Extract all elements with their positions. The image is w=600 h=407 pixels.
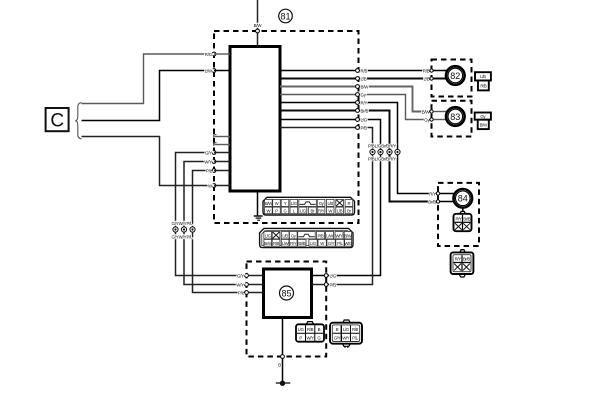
svg-text:P/B L/G Br/B R/Y: P/B L/G Br/B R/Y — [368, 156, 396, 161]
unit 85 dashed enclosure — [247, 262, 327, 357]
wire R/G pin to block — [214, 53, 230, 55]
J1 blocked pin — [336, 199, 344, 206]
svg-text:Br/B: Br/B — [463, 216, 470, 221]
svg-text:R/Y: R/Y — [318, 209, 325, 214]
J2 pin W/G row2 — [344, 239, 353, 246]
svg-text:L/G: L/G — [291, 201, 298, 206]
bullet connector R/Y — [395, 149, 400, 154]
svg-text:G/Y W/Y P/L: G/Y W/Y P/L — [172, 235, 194, 240]
J2 pin L/W — [326, 232, 335, 239]
svg-text:B/W: B/W — [422, 109, 431, 114]
wire G/Y pin to block — [214, 152, 230, 154]
J2 pin P/B — [316, 232, 324, 239]
J1 pin L/B row2 — [336, 207, 344, 214]
svg-text:L/B: L/B — [480, 74, 486, 79]
bullet connector Br/B — [387, 149, 392, 154]
J1 pin Br row2b — [345, 207, 353, 214]
connector table J2 harness side — [260, 228, 353, 247]
pin R/B of bulb 82 — [430, 69, 447, 72]
svg-text:R/B: R/B — [352, 327, 359, 332]
pin B at dashed border — [281, 355, 285, 359]
J1 pin B/W — [265, 199, 274, 206]
svg-text:B: B — [278, 362, 281, 367]
pin Gy of bulb 83 — [430, 118, 447, 121]
pin R/G — [212, 52, 216, 56]
svg-text:B/W: B/W — [361, 84, 370, 89]
J2 pin W row2 — [318, 239, 326, 246]
wire W/Y pin to block — [214, 161, 230, 163]
pin Br/B of bulb 84 — [436, 200, 454, 203]
J1 pin R/Y row2 — [317, 207, 325, 214]
svg-text:L/B: L/B — [424, 76, 430, 81]
svg-text:L/B: L/B — [361, 76, 367, 81]
svg-text:W/Y: W/Y — [236, 282, 244, 287]
svg-text:G/Y: G/Y — [328, 241, 335, 246]
unit 81 block — [230, 47, 280, 192]
J2 pin B/W — [344, 232, 353, 239]
ground symbol of unit 81 — [254, 216, 263, 220]
wire W pin to block — [214, 185, 230, 187]
svg-text:P/L: P/L — [238, 290, 245, 295]
svg-text:R/B: R/B — [361, 68, 368, 73]
J1 pin W row2b — [326, 207, 334, 214]
svg-text:W/Y: W/Y — [335, 233, 343, 238]
svg-text:C: C — [50, 111, 64, 132]
pin G/Y — [212, 151, 216, 155]
harness connector below bulb 84 — [451, 250, 474, 277]
wire P/L pin to block — [214, 170, 230, 172]
J2 pin L/G row2 — [309, 239, 317, 246]
svg-text:84: 84 — [458, 194, 468, 204]
J2 pin G/Y row2 — [327, 239, 335, 246]
svg-text:L/G: L/G — [300, 209, 307, 214]
svg-text:R/Y: R/Y — [455, 216, 462, 221]
svg-text:R/B: R/B — [273, 241, 280, 246]
pin P/L — [212, 169, 216, 173]
svg-text:P/L: P/L — [337, 241, 343, 246]
pin P/B of unit 85 — [312, 282, 337, 287]
svg-text:P/L: P/L — [206, 168, 213, 173]
J2 pin L/B — [281, 232, 289, 239]
wire Gy unit 81 to bulb 83 — [280, 92, 432, 122]
svg-text:R/B: R/B — [480, 83, 487, 88]
J2 pin R/Y row2 — [289, 239, 297, 246]
bulb 84 dashed enclosure — [438, 183, 479, 246]
pin G/Y of unit 85 — [237, 273, 263, 278]
svg-text:W/Y: W/Y — [342, 335, 350, 340]
svg-text:L/B: L/B — [327, 201, 333, 206]
J1 pin L row2 — [290, 207, 298, 214]
svg-text:83: 83 — [450, 112, 460, 122]
socket connector of bulb 84 — [454, 211, 472, 231]
svg-text:R/B: R/B — [307, 327, 314, 332]
svg-text:Br/W: Br/W — [264, 241, 273, 246]
svg-text:L/G: L/G — [361, 117, 368, 122]
svg-text:P/B: P/B — [317, 233, 323, 238]
wire bulb 84 to socket — [462, 208, 464, 213]
J1 pin Br row2 — [308, 207, 316, 214]
svg-text:L/G: L/G — [310, 241, 317, 246]
pin P/L of unit 85 — [238, 290, 264, 295]
harness connector of unit 85 — [330, 320, 362, 348]
bullet connector P/B — [370, 149, 375, 154]
svg-text:P/L: P/L — [352, 335, 358, 340]
pin W — [212, 184, 216, 188]
bullet connector L/G — [378, 149, 383, 154]
J2 pin P/L row2 — [336, 239, 344, 246]
J1 pin Gy — [317, 199, 325, 206]
J1 pin L/G — [290, 199, 298, 206]
svg-text:L/G: L/G — [330, 273, 337, 278]
J2 pin Br/B row2 — [298, 239, 306, 246]
pin B/W of bulb 83 — [430, 110, 447, 113]
wire G/Y from unit 81 to unit 85 — [176, 153, 247, 276]
pin L/B of bulb 82 — [430, 77, 447, 80]
stub pin 2 of unit 81 — [214, 143, 230, 146]
J1 pin L/B — [326, 199, 334, 206]
pin R/Y of bulb 84 — [436, 192, 454, 195]
svg-text:Br/B: Br/B — [463, 257, 470, 262]
bullet connector P/L — [190, 227, 195, 232]
wire R/B unit 81 to bulb 82 — [280, 68, 432, 73]
J2 blocked pin — [272, 232, 280, 239]
wire L/W from C to unit 81 — [82, 71, 215, 121]
J1 pin G row2 — [281, 207, 289, 214]
J1 pin W — [273, 199, 281, 206]
svg-text:G/Y W/Y P/L: G/Y W/Y P/L — [172, 221, 194, 226]
svg-text:85: 85 — [281, 289, 291, 299]
wire P/L from unit 81 to unit 85 — [193, 171, 247, 293]
wire W from C to unit 81 — [82, 137, 215, 186]
socket connector of bulb 83 — [475, 113, 491, 130]
J2 pin L/W row2 — [281, 239, 289, 246]
wire R/Y unit 81 to bulb 84 — [280, 100, 438, 196]
wire P/B unit 81 to unit 85 — [280, 125, 373, 284]
svg-text:R/G: R/G — [205, 52, 213, 57]
svg-text:L/G: L/G — [343, 327, 350, 332]
svg-text:Br/B: Br/B — [361, 108, 369, 113]
svg-text:G/Y: G/Y — [334, 335, 341, 340]
svg-text:R/Y: R/Y — [455, 257, 462, 262]
J2 pin R/B row2 — [272, 239, 280, 246]
pin W/Y of unit 85 — [236, 282, 263, 287]
svg-text:L/W: L/W — [205, 68, 213, 73]
J2 pin L/G — [264, 232, 272, 239]
wire L/B unit 81 to bulb 82 — [280, 76, 432, 81]
svg-text:R/Y: R/Y — [361, 100, 368, 105]
svg-text:R: R — [348, 201, 351, 206]
J1 pin R — [345, 199, 353, 206]
J2 pin Br/W row2 — [264, 239, 273, 246]
unit 85 block — [264, 269, 312, 318]
svg-text:R/B: R/B — [423, 68, 430, 73]
wire B ground lead of unit 85 — [282, 318, 284, 382]
bulb 84 — [454, 189, 473, 208]
wire W/Y from unit 81 to unit 85 — [184, 162, 247, 285]
svg-text:R/Y: R/Y — [290, 241, 297, 246]
wire ground lead of unit 81 — [257, 191, 259, 216]
J1 latch bump — [299, 199, 317, 206]
unit 85 designator circle — [280, 286, 294, 300]
svg-text:L/G: L/G — [298, 327, 305, 332]
J2 latch bump — [298, 232, 316, 239]
connector of unit 85 — [296, 322, 324, 342]
bulb 83 dashed enclosure — [432, 101, 472, 137]
svg-text:P/B L/G Br/B R/Y: P/B L/G Br/B R/Y — [368, 143, 396, 148]
bulb 82 dashed enclosure — [432, 60, 472, 97]
svg-text:W/Y: W/Y — [307, 335, 315, 340]
svg-text:Br/B: Br/B — [428, 199, 436, 204]
socket connector of bulb 82 — [475, 72, 491, 90]
svg-text:B/W: B/W — [254, 23, 263, 28]
J1 pin W row2 — [265, 207, 273, 214]
stub pin 1 of unit 81 — [214, 135, 230, 138]
wire B/W unit 81 to bulb 83 — [280, 84, 432, 114]
svg-text:W/G: W/G — [344, 241, 353, 246]
J1 pin P row2 — [273, 207, 281, 214]
unit 81 dashed enclosure — [214, 31, 359, 223]
svg-text:L/B: L/B — [282, 233, 288, 238]
J2 pin Gy — [289, 232, 297, 239]
connector table J1 of unit 81 — [263, 197, 355, 215]
pin Br/W at dashed border — [256, 29, 260, 33]
svg-text:W/Y: W/Y — [204, 159, 212, 164]
bulb 82 — [446, 66, 465, 85]
bullet connector G/Y — [173, 227, 178, 232]
J1 pin Y — [281, 199, 289, 206]
J1 pin L/G row2 — [299, 207, 307, 214]
pin W/Y — [212, 160, 216, 164]
svg-text:G/Y: G/Y — [237, 273, 244, 278]
svg-text:82: 82 — [450, 71, 460, 81]
svg-text:Br/B: Br/B — [298, 241, 305, 246]
svg-text:L/B: L/B — [337, 209, 343, 214]
brace for connector C wires — [75, 103, 81, 139]
svg-text:81: 81 — [280, 11, 290, 21]
svg-text:R/Y: R/Y — [429, 191, 436, 196]
wire L/W pin to block — [214, 70, 230, 72]
wire Br/W supply into unit 81 — [257, 0, 259, 47]
svg-text:G/Y: G/Y — [205, 150, 212, 155]
frame ground symbol — [276, 381, 291, 386]
bullet connector W/Y — [181, 227, 186, 232]
bulb 83 — [446, 107, 465, 126]
unit 81 designator circle — [279, 9, 293, 23]
pin L/W — [212, 69, 216, 73]
svg-text:P/B: P/B — [330, 282, 337, 287]
wire L/G unit 81 to unit 85 — [280, 117, 381, 275]
svg-text:L/G: L/G — [265, 233, 272, 238]
connector C — [46, 108, 69, 132]
pin L/G of unit 85 — [312, 273, 337, 278]
svg-text:P/B: P/B — [361, 125, 368, 130]
J2 pin W/Y — [335, 232, 343, 239]
wire Br/B unit 81 to bulb 84 — [280, 108, 438, 204]
wire R/G from C to unit 81 — [82, 54, 215, 104]
